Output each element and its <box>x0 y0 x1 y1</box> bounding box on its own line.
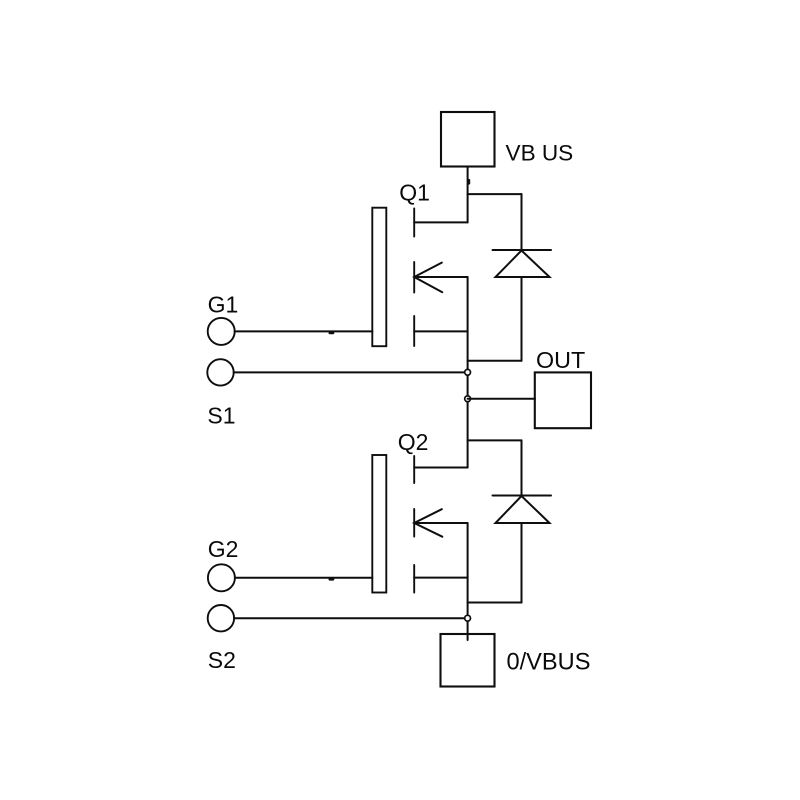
wire G2 to gate <box>235 577 372 579</box>
Q2 source lead <box>414 577 467 579</box>
svg-text:VBUS: VBUS <box>506 141 574 166</box>
svg-text:G1: G1 <box>208 292 239 318</box>
wire D1 cathode drop <box>521 194 523 250</box>
Q2 body lead <box>414 522 467 524</box>
D1 cathode bar <box>493 249 552 251</box>
Q2 body bar <box>413 509 415 537</box>
svg-text:Q2: Q2 <box>398 429 429 455</box>
Q2 body arrow <box>414 509 442 537</box>
wire VBUS to Q1 drain <box>467 167 469 223</box>
terminal OUT <box>535 372 591 428</box>
pin nub G1 wire <box>330 332 333 335</box>
svg-text:S2: S2 <box>208 647 236 673</box>
Q1 drain bar <box>413 209 415 237</box>
svg-text:G2: G2 <box>208 536 239 562</box>
Q2 source bar <box>413 565 415 593</box>
terminal G2 circle <box>208 564 235 591</box>
Q2 gate plate <box>372 455 386 593</box>
svg-text:Q1: Q1 <box>399 179 430 205</box>
wire S1 to node <box>234 371 468 373</box>
wire S2 to node <box>234 617 468 619</box>
Q1 body lead <box>414 276 467 278</box>
wire drain branch to D1 <box>468 193 522 195</box>
wire D2 anode to source node <box>468 602 522 604</box>
D2 cathode bar <box>493 495 552 497</box>
Q1 source bar <box>413 316 415 346</box>
D2 anode drop <box>521 523 523 603</box>
wire G1 to gate <box>235 330 373 332</box>
svg-text:0/VBUS: 0/VBUS <box>507 649 591 675</box>
svg-text:S1: S1 <box>207 402 235 428</box>
terminal S1 circle <box>207 359 233 385</box>
terminal VBUS <box>441 112 495 167</box>
Q2 drain bar <box>413 456 415 483</box>
wire Q2 drain branch to D2 <box>468 439 522 441</box>
svg-text:OUT: OUT <box>536 347 585 373</box>
wire node to OUT <box>468 398 535 400</box>
wire D1 anode to source node <box>468 360 522 362</box>
node OUT junction <box>465 396 471 402</box>
Q1 source lead <box>414 330 467 332</box>
Q1 gate plate <box>372 208 386 347</box>
terminal S2 circle <box>208 605 234 631</box>
main vertical net Q1 body/source to Q2 drain <box>467 277 469 468</box>
Q1 body arrow <box>414 263 442 293</box>
wire D2 cathode drop <box>521 440 523 495</box>
pin nub G2 wire <box>330 578 333 581</box>
Q1 drain lead <box>414 221 467 223</box>
D1 anode drop <box>521 277 523 361</box>
Q2 drain lead <box>414 467 467 469</box>
Q1 body bar <box>413 262 415 293</box>
node S2 junction <box>465 615 471 621</box>
terminal G1 circle <box>208 318 235 345</box>
D2 triangle <box>496 496 550 523</box>
terminal 0/VBUS <box>441 634 495 687</box>
main vertical net Q2 body/source to 0/VBUS <box>467 523 469 640</box>
node S1 junction <box>465 369 471 375</box>
D1 triangle <box>496 251 550 278</box>
pin nub VBUS wire <box>468 180 471 183</box>
